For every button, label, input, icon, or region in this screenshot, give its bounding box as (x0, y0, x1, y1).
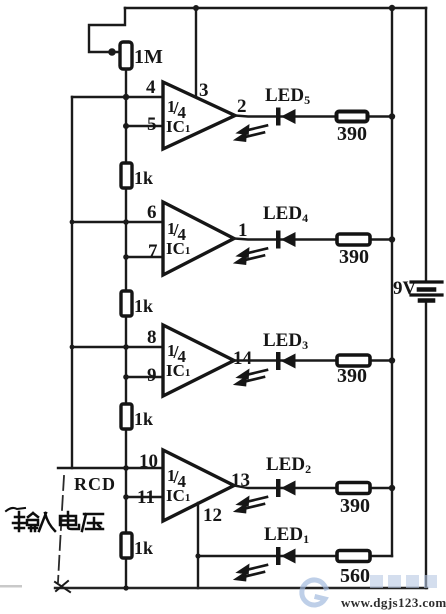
node divider pin10 crossing (123, 465, 129, 471)
resistor Rdiv3 1k body (121, 404, 132, 429)
node input voltage label (shu ru dian ya) (6, 508, 103, 531)
wire pin 7 input (126, 256, 163, 258)
svg-text:5: 5 (147, 114, 157, 135)
node divider pin7 tap (123, 254, 129, 260)
wire divider chain vertical (125, 69, 127, 588)
svg-text:LED3: LED3 (263, 330, 308, 352)
svg-text:LED1: LED1 (264, 524, 309, 546)
wire top supply rail (125, 7, 426, 10)
wire bottom ground rail (55, 587, 427, 589)
wire output row 3 (234, 359, 392, 361)
LED3 symbol (276, 352, 296, 370)
node divider pin9 tap (123, 374, 129, 380)
svg-text:LED5: LED5 (265, 85, 310, 107)
resistor R2 390 body (337, 483, 370, 494)
node pin3 rail junction (193, 5, 199, 11)
svg-text:390: 390 (340, 495, 370, 517)
resistor R5 390 body (337, 112, 368, 122)
wire output row 4 (234, 486, 392, 489)
wire pin 5 input (126, 125, 163, 127)
node inner rail top junction (389, 5, 395, 11)
node divider pin11 tap (123, 494, 129, 500)
op-amp U1b triangle (163, 202, 234, 275)
wire pin 11 input (126, 496, 163, 498)
resistor R1M body (120, 42, 132, 69)
LED5 light arrows (237, 126, 268, 141)
LED1 light arrows (237, 565, 268, 580)
node 1M left terminal junction (108, 48, 116, 56)
wire pin 4 input (72, 96, 163, 98)
svg-text:390: 390 (339, 246, 369, 268)
op-amp U1d triangle (163, 450, 234, 521)
svg-text:11: 11 (137, 487, 155, 508)
wire outer battery rail (425, 8, 427, 281)
node pin12 LED1 branch (195, 553, 200, 558)
resistor R3 390 body (337, 355, 370, 366)
svg-text:4: 4 (146, 77, 156, 98)
wire pin 3 supply (195, 8, 197, 95)
node divider pin8 crossing (123, 344, 129, 350)
resistor Rdiv4 1k body (121, 533, 132, 558)
svg-text:1k: 1k (134, 538, 153, 558)
node inner rail row2 junction (389, 236, 395, 242)
svg-text:6: 6 (147, 202, 157, 223)
svg-text:390: 390 (337, 123, 367, 145)
wire 1M feedback loop step (89, 8, 125, 52)
svg-text:10: 10 (139, 451, 158, 472)
wire pin 6 input (72, 221, 163, 223)
wire pin 9 input (126, 376, 163, 378)
node bus pin6 branch (70, 220, 75, 225)
svg-text:www.dgjs123.com: www.dgjs123.com (341, 595, 446, 610)
node divider bottom junction (123, 585, 128, 590)
svg-text:1k: 1k (134, 296, 153, 316)
LED2 light arrows (237, 497, 268, 512)
wire LED1 row (198, 555, 392, 557)
node divider pin4 crossing (123, 94, 129, 100)
LED3 light arrows (237, 370, 268, 385)
svg-text:14: 14 (233, 348, 253, 369)
resistor R1 560 body (337, 551, 370, 562)
wire pin 10 input (58, 467, 163, 469)
scan noise left edge (0, 585, 22, 588)
LED2 symbol (276, 479, 296, 497)
node bus pin8 branch (70, 345, 75, 350)
watermark logo swirl (302, 580, 326, 605)
resistor Rdiv2 1k body (121, 291, 132, 316)
node inner rail row1 junction (389, 113, 395, 119)
op-amp U1a triangle (163, 82, 235, 149)
node inner rail row4 junction (389, 485, 395, 491)
svg-text:8: 8 (147, 327, 157, 348)
svg-text:LED4: LED4 (263, 203, 308, 225)
wire pin 8 input (72, 346, 163, 348)
wire output row 2 (234, 239, 392, 240)
svg-text:LED2: LED2 (266, 454, 311, 476)
wire outer battery rail lower (425, 300, 427, 588)
svg-text:1k: 1k (134, 168, 153, 188)
watermark text blocks (370, 575, 437, 588)
svg-text:RCD: RCD (74, 474, 116, 494)
svg-text:1M: 1M (134, 46, 163, 68)
node divider pin5 tap (123, 123, 129, 129)
op-amp U1c triangle (163, 325, 234, 396)
svg-text:12: 12 (203, 505, 222, 526)
resistor Rdiv1 1k body (121, 163, 132, 188)
LED4 symbol (276, 231, 296, 249)
node input probe arrow cross (55, 581, 70, 592)
svg-text:390: 390 (337, 365, 367, 387)
wire left input bus vertical (71, 97, 73, 468)
svg-text:2: 2 (237, 96, 247, 117)
svg-text:7: 7 (148, 241, 158, 262)
wire output row 1 (235, 116, 392, 117)
wire inner LED supply rail (391, 8, 393, 556)
LED4 light arrows (237, 249, 268, 264)
battery BT1 plates (411, 282, 442, 301)
resistor R4 390 body (337, 234, 370, 245)
node inner rail row3 junction (389, 357, 395, 363)
svg-text:9: 9 (147, 365, 157, 386)
node divider pin6 crossing (123, 219, 129, 225)
wire pin 12 ground drop (197, 503, 199, 588)
svg-text:560: 560 (340, 565, 370, 587)
LED1 symbol (276, 547, 296, 565)
svg-text:1k: 1k (134, 409, 153, 429)
wire input probe dashed (58, 476, 64, 582)
LED5 symbol (276, 108, 296, 126)
